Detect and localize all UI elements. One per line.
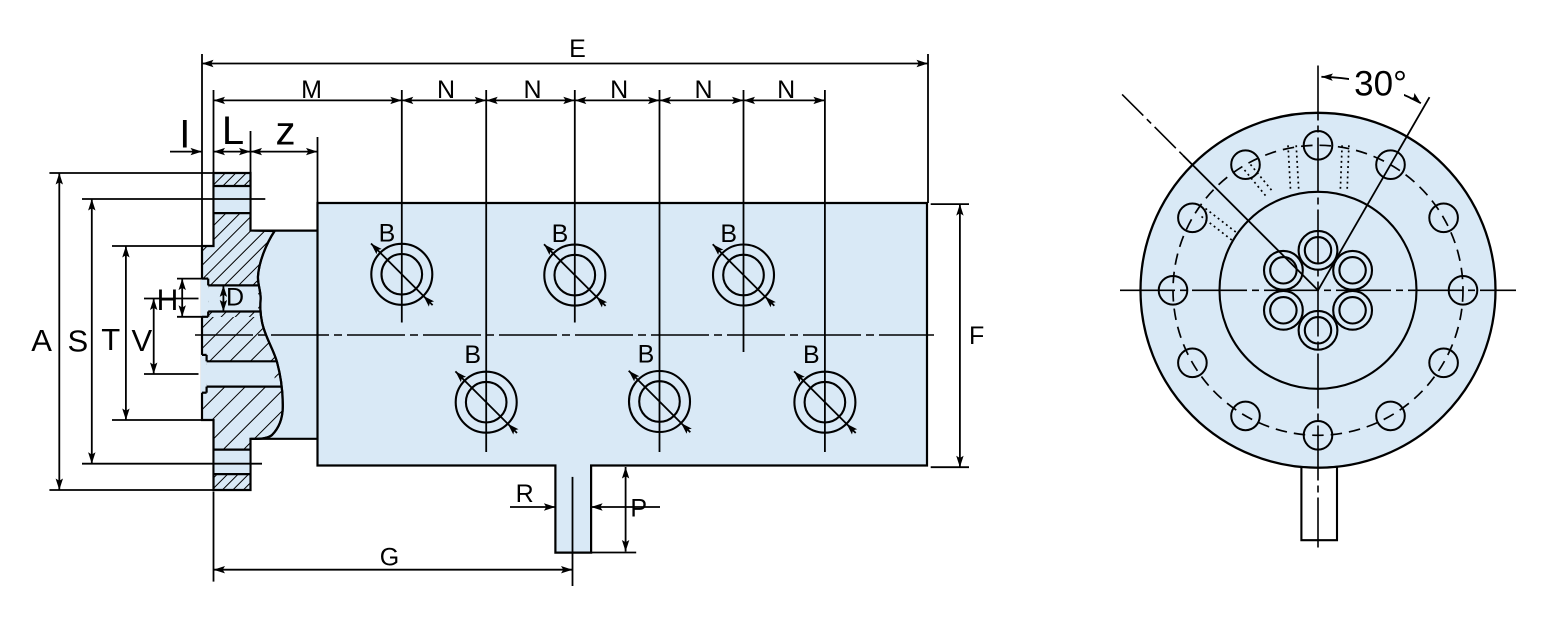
30 degree angular dimension arc bbox=[1321, 77, 1421, 103]
dimension V bbox=[144, 298, 199, 300]
flange top bolt hole band bbox=[215, 186, 250, 213]
svg-text:B: B bbox=[638, 341, 655, 369]
label 30 degrees bbox=[1349, 64, 1404, 97]
bolt hole 1 bbox=[1304, 131, 1333, 160]
diagonal line from centre to upper-left port bbox=[1183, 155, 1318, 290]
bolt hole 9 bbox=[1178, 349, 1207, 378]
dimension D bbox=[222, 285, 224, 311]
svg-text:B: B bbox=[464, 341, 481, 369]
end view: flange face (circular) bbox=[1141, 113, 1496, 468]
30 degree reference line bbox=[1318, 97, 1430, 290]
svg-text:S: S bbox=[68, 324, 89, 359]
dimension F bbox=[931, 203, 969, 205]
svg-text:L: L bbox=[222, 109, 244, 153]
svg-text:E: E bbox=[569, 35, 586, 63]
bolt hole 12 bbox=[1231, 150, 1260, 179]
svg-text:F: F bbox=[969, 322, 984, 350]
dimension P bbox=[591, 552, 636, 554]
svg-text:N: N bbox=[610, 76, 628, 104]
svg-text:30°: 30° bbox=[1354, 65, 1407, 104]
dimension L bbox=[250, 131, 252, 173]
dimension z bbox=[317, 137, 319, 203]
svg-text:V: V bbox=[132, 323, 153, 358]
flange hub profile curve bbox=[251, 231, 283, 439]
centre port 5 bbox=[1264, 291, 1303, 330]
svg-text:N: N bbox=[777, 76, 795, 104]
bolt hole 2 bbox=[1376, 150, 1405, 179]
port circle B3 bbox=[713, 245, 774, 306]
dimension G bbox=[213, 492, 215, 582]
dimension H bbox=[177, 278, 202, 280]
dimension T bbox=[112, 245, 202, 247]
dimension I bbox=[170, 151, 202, 153]
port circle B5 bbox=[629, 371, 690, 432]
dimension S bbox=[82, 198, 265, 200]
svg-text:z: z bbox=[276, 109, 296, 153]
port circle B6 bbox=[794, 372, 855, 433]
horizontal centreline of end view bbox=[1120, 289, 1516, 291]
centre port 1 bbox=[1299, 231, 1338, 270]
svg-text:I: I bbox=[179, 112, 190, 156]
diagonal centreline at 135 degrees bbox=[1122, 94, 1183, 155]
bolt hole 11 bbox=[1178, 204, 1207, 233]
svg-text:A: A bbox=[31, 323, 52, 358]
dimension R bbox=[510, 506, 555, 508]
port circle B2 bbox=[544, 245, 605, 306]
centre port 3 bbox=[1333, 291, 1372, 330]
centre port 6 bbox=[1264, 251, 1303, 290]
dimension A bbox=[49, 172, 213, 174]
svg-text:B: B bbox=[552, 220, 569, 248]
svg-text:N: N bbox=[523, 76, 541, 104]
bolt hole 6 bbox=[1376, 402, 1405, 431]
svg-text:T: T bbox=[101, 322, 120, 357]
svg-text:B: B bbox=[803, 341, 820, 369]
svg-text:N: N bbox=[437, 76, 455, 104]
svg-text:R: R bbox=[516, 480, 534, 508]
port circle B4 bbox=[456, 372, 517, 433]
svg-text:B: B bbox=[379, 219, 396, 247]
svg-text:P: P bbox=[630, 494, 647, 522]
dimension E bbox=[201, 54, 203, 246]
bolt hole 7 bbox=[1304, 421, 1333, 450]
bottom stub of end view bbox=[1301, 467, 1337, 540]
bolt hole 3 bbox=[1429, 204, 1458, 233]
bolt hole 10 bbox=[1159, 276, 1188, 305]
flange bottom bolt hole band bbox=[215, 450, 250, 475]
vertical centreline of end view bbox=[1317, 66, 1319, 548]
bolt hole 5 bbox=[1429, 349, 1458, 378]
svg-text:B: B bbox=[720, 220, 737, 248]
manifold body with bottom drain stub bbox=[318, 203, 928, 553]
shaft sleeve between flange and body bbox=[250, 231, 318, 439]
flange cross-section (hatched) bbox=[202, 173, 283, 490]
svg-text:N: N bbox=[694, 76, 712, 104]
svg-text:G: G bbox=[380, 544, 399, 572]
svg-text:D: D bbox=[226, 284, 244, 312]
lower port counterbore and hole bbox=[201, 355, 207, 393]
spigot circle (inner solid) bbox=[1220, 192, 1417, 389]
centre port 2 bbox=[1333, 251, 1372, 290]
port circle B1 bbox=[371, 244, 432, 305]
dimension M and N pitch lines bbox=[213, 90, 215, 173]
centre port 4 bbox=[1299, 311, 1338, 350]
horizontal centreline of side view bbox=[195, 334, 934, 336]
svg-text:M: M bbox=[301, 76, 322, 104]
bolt circle (dashed) bbox=[1173, 145, 1463, 435]
upper port counterbore and hole D bbox=[201, 279, 208, 317]
svg-text:H: H bbox=[157, 284, 179, 317]
bolt hole 8 bbox=[1231, 402, 1260, 431]
bolt hole 4 bbox=[1449, 276, 1478, 305]
hidden drilled passages (dotted) bbox=[1288, 145, 1291, 191]
